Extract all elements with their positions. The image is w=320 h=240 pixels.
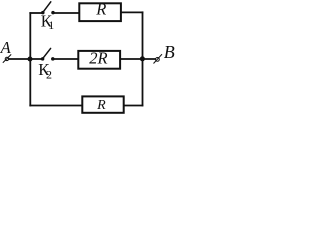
svg-text:R: R [95, 0, 106, 19]
svg-text:1: 1 [48, 18, 54, 32]
svg-text:A: A [0, 38, 12, 57]
svg-text:2R: 2R [89, 49, 107, 68]
svg-text:2: 2 [46, 67, 52, 81]
svg-text:B: B [164, 42, 175, 62]
svg-text:R: R [96, 98, 106, 113]
